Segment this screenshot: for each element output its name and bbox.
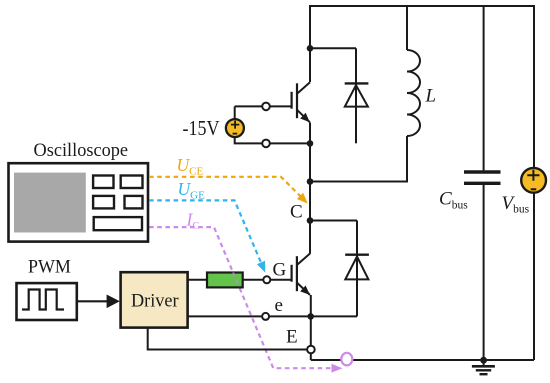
node junction e / D2 bottom — [307, 313, 314, 320]
wire kelvin emitter e (Driver to junction) — [188, 315, 263, 317]
oscilloscope button 2 — [121, 176, 143, 189]
diode D1 (upper freewheeling diode) — [310, 48, 368, 143]
wire Q1 gate lead — [270, 105, 292, 107]
probe line IC arrowhead — [332, 364, 343, 373]
probe line IC (purple dashed) — [149, 227, 331, 368]
voltage source -15V wiring — [235, 106, 310, 143]
svg-text:G: G — [273, 260, 287, 281]
transistor Q2 (lower IGBT) — [292, 254, 310, 295]
PWM source box — [17, 283, 77, 320]
capacitor Cbus — [464, 5, 501, 360]
terminal (open circle) Q1 gate — [262, 103, 270, 111]
svg-text:E: E — [286, 326, 298, 347]
svg-text:-15V: -15V — [183, 116, 220, 140]
wire main phase leg middle segment — [309, 122, 311, 253]
ground symbol — [472, 360, 495, 374]
node junction inductor to phase leg — [307, 178, 314, 185]
diode D2 (lower freewheeling diode) — [310, 221, 369, 317]
wire bottom rail (ground return) — [311, 359, 534, 361]
terminal (open circle) node e — [262, 313, 269, 320]
node junction at D1 top — [307, 45, 314, 52]
terminal (open circle) Q1 emitter return — [262, 140, 270, 148]
PWM square wave glyph — [22, 290, 64, 310]
svg-text:e: e — [275, 295, 283, 316]
oscilloscope button 3 — [93, 196, 114, 209]
voltage source Vbus body — [521, 168, 546, 193]
terminal (open circle) node E — [307, 346, 315, 354]
wire PWM to Driver arrow — [77, 300, 108, 302]
inductor L — [310, 5, 420, 182]
voltage source V1 -15V body — [226, 119, 244, 137]
probe line UCE (orange dashed) — [149, 177, 301, 197]
node junction Q1 emitter / D1 bottom — [307, 140, 314, 147]
svg-text:PWM: PWM — [28, 256, 71, 277]
svg-text:Oscilloscope: Oscilloscope — [34, 140, 129, 161]
probe line IC overlay across resistor — [233, 272, 240, 287]
oscilloscope button 5 (wide) — [94, 217, 142, 230]
node junction C (collector node, D2 top) — [307, 217, 314, 224]
oscilloscope button 4 — [125, 196, 143, 209]
svg-text:L: L — [425, 86, 437, 107]
wire main phase leg lower segment — [310, 295, 312, 360]
transistor Q1 (upper IGBT) — [292, 82, 310, 122]
current probe loop on emitter wire — [341, 353, 352, 366]
terminal (open circle) node G — [263, 276, 270, 283]
svg-text:Driver: Driver — [131, 291, 179, 312]
probe line UGE (blue dashed) — [149, 200, 262, 263]
oscilloscope button 1 — [93, 176, 113, 189]
driver gate wire (Driver to resistor to G) — [188, 279, 207, 281]
wire main phase leg upper segment — [309, 5, 311, 82]
voltage source Vbus wiring — [533, 5, 535, 168]
wire Driver bottom to E — [148, 328, 307, 350]
svg-text:C: C — [290, 201, 303, 222]
wire Q2 gate lead — [270, 279, 291, 281]
wire top rail (DC bus +) — [310, 5, 534, 7]
resistor Rg (gate resistor, green) — [207, 273, 243, 288]
driver box U1 — [121, 272, 188, 327]
node junction ground — [480, 357, 487, 364]
oscilloscope box — [9, 163, 149, 241]
oscilloscope screen — [14, 173, 86, 233]
